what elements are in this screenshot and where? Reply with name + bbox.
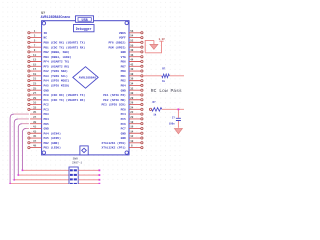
svg-text:PB0 (CDC RX) (USART3 TX): PB0 (CDC RX) (USART3 TX) [44,40,86,44]
svg-text:33: 33 [33,106,37,109]
svg-text:PF4 (USART2 TX): PF4 (USART2 TX) [44,60,70,64]
svg-text:42: 42 [130,63,134,66]
svg-text:PB3 (DBG1, LED0): PB3 (DBG1, LED0) [44,55,72,59]
svg-text:USB: USB [82,19,88,23]
svg-text:PB1 (CDC TX) (USART3 RX): PB1 (CDC TX) (USART3 RX) [44,45,86,49]
svg-text:R?: R? [162,67,166,70]
svg-text:2X07-1: 2X07-1 [72,162,82,165]
svg-text:16: 16 [130,126,134,129]
svg-text:PA2 (TWI0 SDA): PA2 (TWI0 SDA) [44,69,69,73]
svg-text:XTAL32K1 (PF0): XTAL32K1 (PF0) [102,141,127,145]
svg-text:100n: 100n [169,123,175,126]
svg-text:PE1 (SPI0 MI): PE1 (SPI0 MI) [103,93,126,97]
svg-text:3.3V: 3.3V [159,38,166,41]
svg-text:23: 23 [33,83,37,86]
svg-text:37: 37 [33,116,37,119]
svg-text:R?: R? [153,101,157,104]
svg-text:48: 48 [130,49,134,52]
svg-text:ID: ID [44,32,48,35]
svg-text:18: 18 [130,121,134,124]
svg-text:34: 34 [130,83,134,86]
svg-text:14: 14 [130,130,134,133]
svg-text:PF6 (DBG2): PF6 (DBG2) [108,40,126,44]
svg-text:PA4 (AIN4): PA4 (AIN4) [44,131,62,135]
svg-text:1k: 1k [162,79,166,83]
svg-text:PE2 (SPI0 MO): PE2 (SPI0 MO) [103,98,126,102]
svg-text:AVR128DB48: AVR128DB48 [79,76,97,79]
svg-text:PB3 (LED0): PB3 (LED0) [44,146,62,150]
svg-text:GND: GND [44,128,49,131]
svg-text:44: 44 [130,59,134,62]
svg-text:22: 22 [130,111,134,114]
svg-text:35: 35 [33,111,37,114]
svg-text:38: 38 [130,73,134,76]
svg-text:GND: GND [121,89,126,92]
svg-text:12: 12 [130,135,134,138]
svg-text:PB2 (GND): PB2 (GND) [44,141,60,145]
svg-text:21: 21 [33,78,37,81]
svg-text:56: 56 [130,30,134,33]
svg-text:30: 30 [130,92,134,95]
svg-text:27: 27 [33,92,37,95]
svg-text:VOFF: VOFF [119,37,126,40]
svg-text:PD0: PD0 [121,70,126,73]
svg-text:15: 15 [33,63,37,66]
svg-text:28: 28 [130,97,134,100]
svg-text:PE3 (SPI0 SCK): PE3 (SPI0 SCK) [102,103,127,107]
svg-text:PE0: PE0 [121,108,126,111]
svg-text:13: 13 [33,59,37,62]
svg-text:PB2 (DBG0, SW0): PB2 (DBG0, SW0) [44,50,70,54]
svg-text:50: 50 [130,44,134,47]
svg-text:PC7: PC7 [121,128,126,131]
svg-text:GND: GND [121,137,126,140]
svg-text:PGM (UPDI): PGM (UPDI) [108,45,126,49]
svg-text:PD6: PD6 [121,61,126,64]
svg-text:PD4: PD4 [44,118,49,121]
svg-text:SW0: SW0 [73,157,78,160]
svg-text:GND: GND [121,51,126,54]
svg-text:39: 39 [33,121,37,124]
svg-text:49: 49 [33,145,37,148]
svg-text:1k: 1k [153,113,157,117]
svg-text:PC0 (CDC RX) (USART1 TX): PC0 (CDC RX) (USART1 TX) [44,93,86,97]
svg-text:PA3 (TWI0 SCL): PA3 (TWI0 SCL) [44,74,69,78]
svg-text:46: 46 [130,54,134,57]
svg-text:XTAL32K2 (PF1): XTAL32K2 (PF1) [102,146,127,150]
svg-text:PD7: PD7 [121,65,126,68]
svg-text:24: 24 [130,106,134,109]
svg-text:32: 32 [130,87,134,90]
svg-text:29: 29 [33,97,37,100]
svg-text:40: 40 [130,68,134,71]
svg-text:PD2: PD2 [121,80,126,83]
svg-text:PC3: PC3 [44,108,49,111]
svg-text:PA5 (SPI0 MISO): PA5 (SPI0 MISO) [44,84,70,88]
svg-text:PC1 (CDC TX) (USART1 RX): PC1 (CDC TX) (USART1 RX) [44,98,86,102]
svg-text:PC2: PC2 [44,104,49,107]
svg-text:10: 10 [130,140,134,143]
svg-text:GND: GND [121,132,126,135]
svg-text:PC5: PC5 [121,118,126,121]
svg-text:PD1: PD1 [121,75,126,78]
svg-text:GND: GND [44,89,49,92]
svg-text:PD3: PD3 [44,113,49,116]
svg-text:PF5 (USART2 RX): PF5 (USART2 RX) [44,64,70,68]
svg-text:31: 31 [33,102,37,105]
svg-text:RC Low Pass Filter: RC Low Pass Filter [151,88,184,94]
svg-text:17: 17 [33,68,37,71]
svg-text:VTG: VTG [121,56,126,59]
svg-text:PA4 (SPI0 MOSI): PA4 (SPI0 MOSI) [44,79,70,83]
svg-text:Debugger: Debugger [76,27,92,31]
svg-text:47: 47 [33,140,37,143]
svg-text:45: 45 [33,135,37,138]
svg-text:PA5 (AIN5): PA5 (AIN5) [44,136,62,140]
svg-text:PC4: PC4 [121,113,126,116]
svg-text:54: 54 [130,35,134,38]
svg-text:VBUS: VBUS [119,32,126,35]
svg-text:26: 26 [130,102,134,105]
svg-text:PD5: PD5 [44,123,49,126]
svg-text:PD4: PD4 [121,85,126,88]
svg-text:36: 36 [130,78,134,81]
svg-text:NC: NC [44,37,48,40]
svg-text:11: 11 [33,54,37,57]
svg-text:19: 19 [33,73,37,76]
svg-text:52: 52 [130,39,134,42]
svg-text:AVR128DB48Cnano: AVR128DB48Cnano [41,15,71,19]
svg-text:PC6: PC6 [121,123,126,126]
svg-text:41: 41 [33,126,37,129]
svg-text:25: 25 [33,87,37,90]
svg-text:43: 43 [33,130,37,133]
svg-text:20: 20 [130,116,134,119]
